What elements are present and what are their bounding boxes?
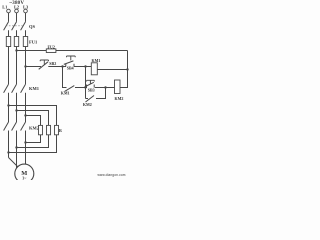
svg-text:L3: L3 [23, 4, 29, 9]
wire FU2 to right rail [58, 50, 128, 52]
wire rung2 right [95, 87, 115, 89]
contactor KM1 main pole2 [12, 84, 17, 93]
wire L2 drop [16, 13, 18, 22]
coil KM1 [91, 63, 97, 75]
fuse FU1 pole 2 [16, 37, 18, 47]
svg-text:SB2: SB2 [49, 61, 56, 66]
node tap L3 rung1 [24, 65, 26, 67]
svg-text:SB4: SB4 [67, 66, 74, 71]
svg-text:SB3: SB3 [88, 87, 95, 92]
wire QS to FU1 p1 [8, 30, 10, 36]
svg-text:KM1: KM1 [61, 91, 70, 96]
wire rung1 right [74, 66, 91, 68]
node branch3 [24, 114, 26, 116]
switch QS pole 2 [12, 22, 17, 31]
node return1 [7, 151, 9, 153]
wire selfhold to node B [75, 87, 87, 89]
resistor R1 [40, 125, 42, 134]
svg-text:FU2: FU2 [48, 45, 55, 50]
node return2 [15, 146, 17, 148]
wire return2 [17, 135, 49, 148]
pushbutton SB4 (NO start) [65, 64, 67, 67]
node rung1 A [61, 65, 63, 67]
wire phase2 KM2 down [16, 131, 18, 170]
wire QS to FU1 p2 [16, 30, 18, 36]
svg-text:www.diangon.com: www.diangon.com [97, 173, 125, 177]
wire KM2 aux right + riser [96, 88, 106, 99]
wire phase1 FU1 to KM1 [8, 47, 10, 85]
node return3 [24, 141, 26, 143]
wire branch1 top [9, 106, 57, 126]
wire rung1 mid [48, 66, 66, 68]
svg-text:R: R [59, 128, 63, 133]
node tap L2 control [15, 49, 17, 51]
wire phase1 KM1 to KM2 [8, 93, 10, 122]
node rung2 right [104, 86, 106, 88]
svg-text:FU1: FU1 [29, 40, 38, 45]
terminal L2 [15, 9, 19, 13]
resistor R2 [48, 125, 50, 134]
wire phase1 KM2 down [8, 131, 10, 158]
node rail KM1 return [126, 68, 128, 70]
svg-text:L2: L2 [14, 4, 19, 9]
wire return3 [26, 135, 41, 143]
node rung1 B [84, 65, 86, 67]
terminal L3 [24, 9, 28, 13]
wire phase2 FU1 to KM1 [16, 47, 18, 85]
contactor KM1 main pole3 [21, 84, 26, 93]
contactor KM2 main pole3 [21, 122, 26, 131]
wire return1 [9, 135, 57, 153]
pushbutton SB2 (NC stop) [39, 62, 48, 70]
svg-text:KM2: KM2 [83, 102, 92, 107]
svg-text:QS: QS [29, 24, 36, 29]
wire phase2 KM1 to KM2 [16, 93, 18, 122]
coil KM2 [115, 80, 121, 94]
wire phase3 FU1 to KM1 [25, 47, 27, 85]
svg-text:3~: 3~ [22, 176, 26, 180]
contactor KM2 main pole2 [12, 122, 17, 131]
wire motor lead1 [9, 158, 19, 168]
terminal L1 [7, 9, 11, 13]
wire KM1 coil to rail [97, 69, 127, 71]
fuse FU1 pole 1 [8, 37, 10, 47]
resistor R3 [56, 125, 58, 134]
wire branch2 top [17, 111, 49, 126]
wire phase3 KM1 to KM2 [25, 93, 27, 122]
fuse FU2 [46, 50, 58, 52]
wire selfhold riser left [63, 67, 67, 88]
node rung2 left [84, 86, 86, 88]
fuse FU1 pole 3 [25, 37, 27, 47]
pushbutton SB3 (NO) [85, 85, 87, 88]
wire riser node B down [85, 67, 87, 99]
switch QS pole 1 [4, 22, 9, 31]
svg-text:KM1: KM1 [29, 86, 40, 91]
contact KM1 aux (self hold) [65, 86, 75, 92]
contactor KM1 main pole1 [4, 84, 9, 93]
wire control feed to FU2 [17, 50, 48, 52]
node branch2 [15, 109, 17, 111]
svg-text:KM1: KM1 [92, 58, 101, 63]
wire L1 drop [8, 13, 10, 22]
svg-text:KM2: KM2 [115, 96, 124, 101]
switch QS pole 3 [21, 22, 26, 31]
wire branch3 top [26, 116, 41, 126]
wire phase3 KM2 down [25, 131, 27, 165]
wire L3 drop [25, 13, 27, 22]
node branch1 [7, 104, 9, 106]
svg-text:L1: L1 [2, 4, 7, 9]
motor M [15, 164, 34, 183]
contact KM2 aux [86, 96, 95, 103]
switch QS link (dashed) [6, 25, 24, 27]
contactor KM2 main pole1 [4, 122, 9, 131]
wire KM2 aux branch left [86, 98, 89, 100]
wire QS to FU1 p3 [25, 30, 27, 36]
wire right rail [120, 51, 128, 88]
wire rung1 left [26, 66, 42, 68]
